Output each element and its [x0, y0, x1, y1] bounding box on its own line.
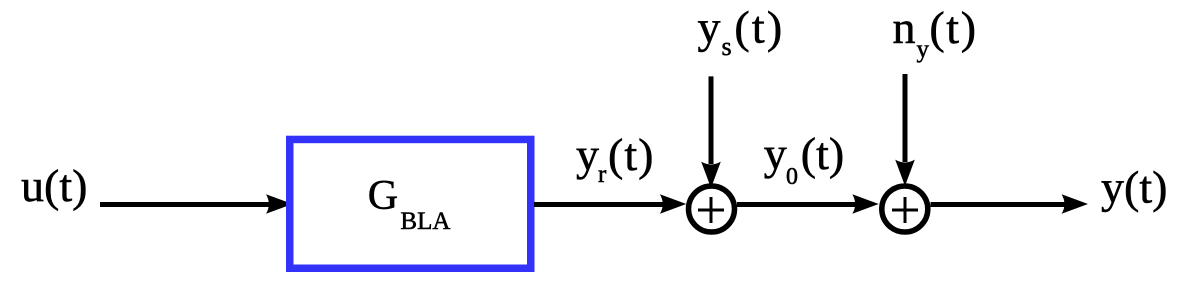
wire sum1 to sum2: [737, 202, 856, 207]
arrowhead to y(t): [1062, 194, 1088, 214]
wire u(t) to G_BLA: [100, 202, 270, 207]
svg-text:(t): (t): [801, 128, 844, 179]
svg-text:r: r: [598, 161, 607, 188]
svg-text:(t): (t): [929, 2, 977, 53]
svg-text:G: G: [368, 173, 398, 219]
plus sign sum2: [892, 209, 918, 212]
svg-text:u(t): u(t): [21, 160, 87, 211]
plus sign sum1: [698, 209, 724, 212]
arrowhead down into sum1: [701, 162, 721, 188]
svg-text:y(t): y(t): [1101, 162, 1167, 213]
block G_BLA (blue box): [290, 139, 531, 268]
svg-text:(t): (t): [608, 129, 654, 180]
arrowhead into sum1: [660, 194, 686, 214]
wire y_s(t) down to sum1: [709, 76, 714, 164]
svg-text:n: n: [893, 2, 916, 53]
svg-text:0: 0: [786, 164, 798, 190]
arrowhead down into sum2: [895, 160, 915, 186]
wire n_y(t) down to sum2: [903, 74, 908, 162]
svg-text:(t): (t): [734, 2, 784, 53]
wire sum2 to y(t): [931, 202, 1067, 207]
arrowhead into G_BLA: [266, 194, 293, 214]
svg-text:y: y: [576, 129, 599, 180]
arrowhead into sum2: [852, 194, 878, 214]
svg-text:s: s: [722, 32, 732, 61]
svg-text:y: y: [764, 128, 787, 179]
wire G_BLA to sum1: [534, 202, 664, 207]
summing junction sum2: [882, 186, 928, 232]
svg-text:y: y: [917, 36, 930, 63]
svg-text:y: y: [698, 2, 721, 53]
summing junction sum1: [689, 186, 735, 232]
svg-text:BLA: BLA: [400, 208, 450, 235]
